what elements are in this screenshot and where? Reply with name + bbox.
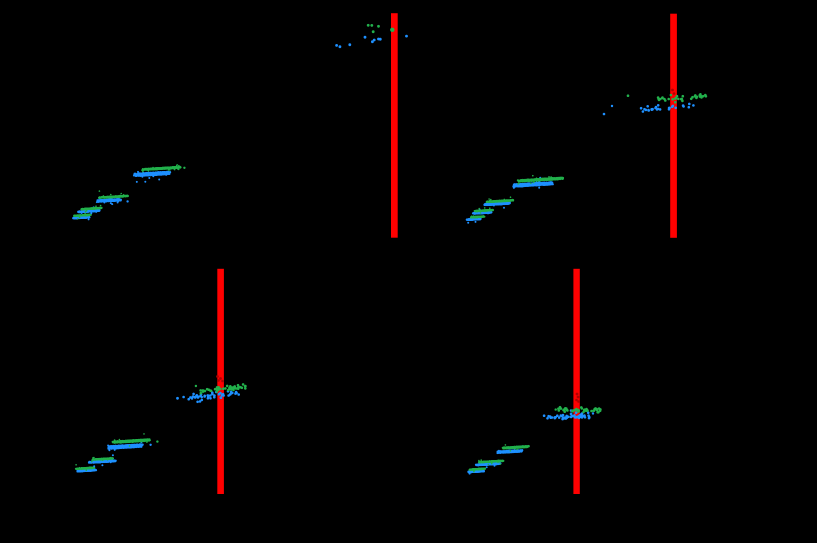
steps TL 4 <box>133 167 171 183</box>
steps TR 2 <box>472 209 493 215</box>
steps BL 2 <box>88 457 117 467</box>
steps BR 1 <box>467 470 485 475</box>
bar TR <box>670 14 677 238</box>
bar BL <box>217 269 224 494</box>
bar BR <box>573 269 579 494</box>
bar TL <box>391 13 398 238</box>
cluster TR <box>603 103 695 116</box>
steps BR 2 <box>475 460 502 468</box>
steps TL 3 <box>96 196 122 206</box>
cluster TL <box>335 35 408 48</box>
steps TR 1 <box>466 218 482 224</box>
cluster BL <box>176 390 240 403</box>
steps BL 3 <box>107 441 144 456</box>
cluster BR <box>543 409 594 420</box>
steps TL 1 <box>72 215 91 221</box>
stray dots near steps <box>156 167 185 443</box>
steps TL 2 <box>77 206 101 214</box>
steps TR 4 <box>512 177 554 189</box>
steps BR 3 <box>496 445 523 454</box>
steps TR 3 <box>483 200 511 209</box>
steps BL 1 <box>76 467 97 473</box>
